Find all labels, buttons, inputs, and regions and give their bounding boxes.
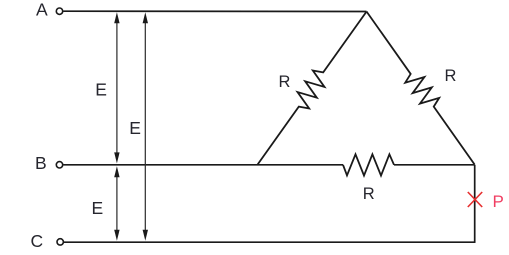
resistor R (right diagonal of delta) (359, 6, 483, 170)
resistor R (bottom, on wire B) (343, 154, 394, 175)
dimension arrow E (A to C), double headed (143, 12, 148, 241)
svg-text:E: E (95, 80, 107, 100)
dimension arrow E (B to C), double headed (114, 166, 119, 241)
svg-text:B: B (35, 153, 47, 173)
svg-text:R: R (363, 185, 375, 203)
svg-text:C: C (31, 231, 44, 251)
svg-text:R: R (445, 67, 457, 85)
wire phase C (64, 241, 476, 243)
resistor R (left diagonal of delta) (250, 6, 375, 170)
terminal A (56, 8, 62, 14)
wire phase B right segment (394, 164, 475, 166)
dimension arrow E (A to B), double headed (114, 12, 119, 163)
fault mark X at node P (468, 192, 482, 207)
terminal B (56, 162, 62, 168)
wire phase A (63, 10, 366, 12)
terminal C (57, 239, 63, 245)
svg-text:P: P (493, 192, 504, 211)
svg-text:E: E (129, 118, 141, 138)
svg-text:E: E (92, 198, 104, 218)
svg-text:R: R (279, 73, 291, 91)
wire right vertical drop (474, 165, 476, 242)
svg-text:A: A (36, 0, 48, 19)
wire phase B left segment (63, 164, 343, 166)
